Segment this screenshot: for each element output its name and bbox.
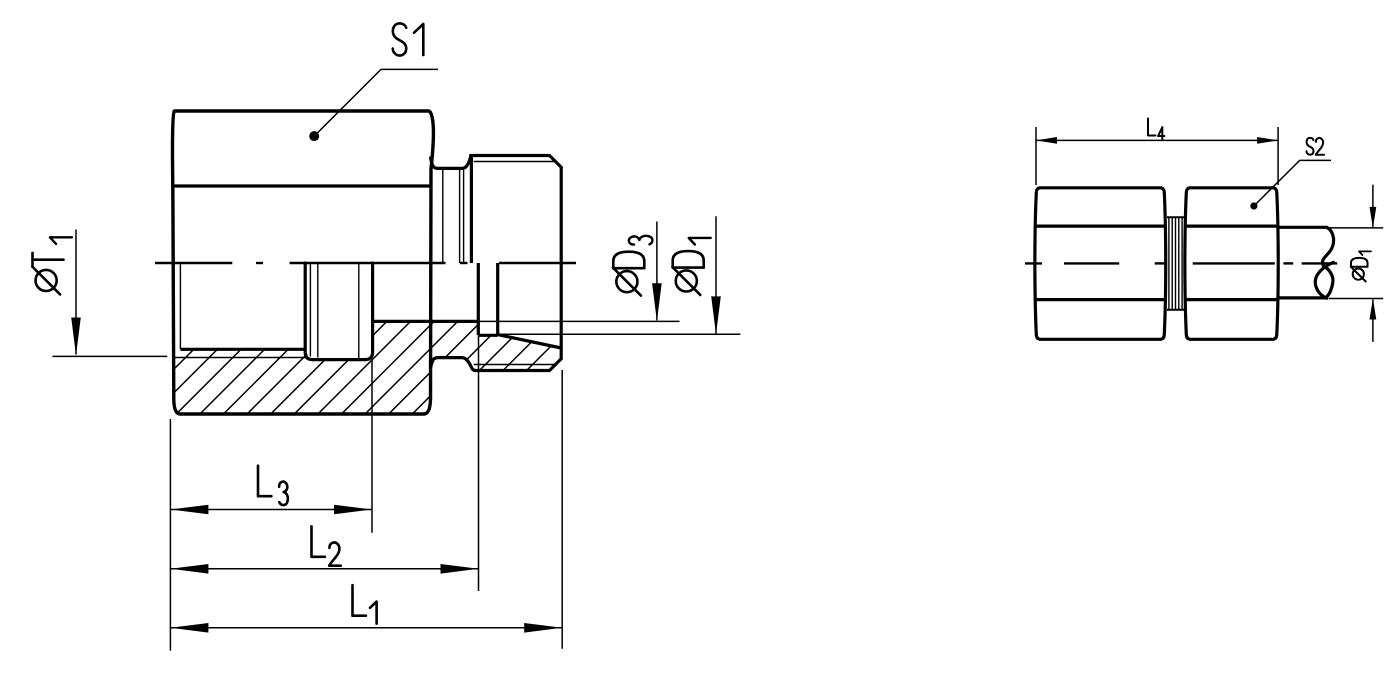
stud chamfer start line [466,156,471,168]
thread relief pocket left wall [305,263,312,360]
stud thread bottom line [475,359,561,371]
tube break curve [1322,227,1333,265]
section hatching [42,290,654,430]
body hex right view [1035,188,1166,339]
dimension D1 reference lines (right view) [1329,227,1383,229]
label L1 [353,585,366,616]
label L3 [258,466,271,497]
extension line L4 left [1035,127,1037,185]
dimension T1 reference line [52,355,167,357]
groove gap lines [1168,217,1170,309]
stud thread start line [470,156,473,264]
bore D3 wall [373,320,479,323]
dimension T1 arrow line [75,230,77,355]
thread relief pocket right wall [365,263,372,360]
extension line L1 right [561,370,563,649]
tube bottom line [1276,296,1326,299]
neck top outline [431,157,471,168]
stud runout line c [463,168,465,263]
label S1 [393,23,406,55]
dimension D3 arrow line [656,222,658,321]
dimension D1 arrow lines (right view) [1372,185,1374,227]
24 degree cone line [498,335,562,348]
dimension line L3 [170,509,372,511]
leader S1 [314,69,438,136]
body hex facet lines [1036,225,1166,228]
label diameter D3 [616,271,637,292]
dimension line L4 [1036,139,1278,141]
stud runout line b [459,168,461,263]
dimension D3 reference line [478,320,679,322]
label S2 [1306,138,1313,155]
extension line L3 right [371,361,373,533]
stud thread top line [471,156,562,168]
extension line L2 right [478,336,480,591]
label diameter T1 [36,270,57,291]
dimension line L1 [170,627,562,629]
female thread minor line [180,348,305,351]
dimension D1 arrow line (left view) [715,216,717,333]
thread runout line a [309,263,311,357]
thread mouth line [179,263,181,349]
neck bottom outline [431,358,476,371]
nut hex right view [1185,188,1278,339]
centerline right view [1025,262,1042,264]
extension line L4 right [1277,127,1279,185]
thread runout line c [358,263,360,358]
recess step wall [477,263,480,335]
stud end face [560,167,563,359]
label diameter D1 (right view) [1353,269,1364,280]
tube top line [1276,226,1326,229]
hex facet line [173,184,431,187]
dimension line L2 [170,568,478,570]
thread relief pocket bottom [312,358,365,361]
label L4 [1148,119,1156,136]
thread runout line b [317,263,319,358]
groove between body and nut top [1167,216,1185,218]
recess bottom [478,334,497,337]
label L2 [312,526,325,557]
extension line left [169,419,171,651]
leader S2 [1254,160,1331,206]
label diameter D1 (left view) [676,270,697,291]
stud thread root bottom [474,364,555,366]
stud runout line a [442,168,444,263]
dimension D1 reference line (left view) [498,333,741,335]
nut hex facet lines [1186,225,1278,228]
hex body outline [172,111,433,414]
groove between body and nut bottom [1167,309,1185,311]
female thread major line [173,357,305,359]
centerline left view [155,262,232,264]
stud thread root top [474,161,555,163]
recess right wall [496,263,499,335]
